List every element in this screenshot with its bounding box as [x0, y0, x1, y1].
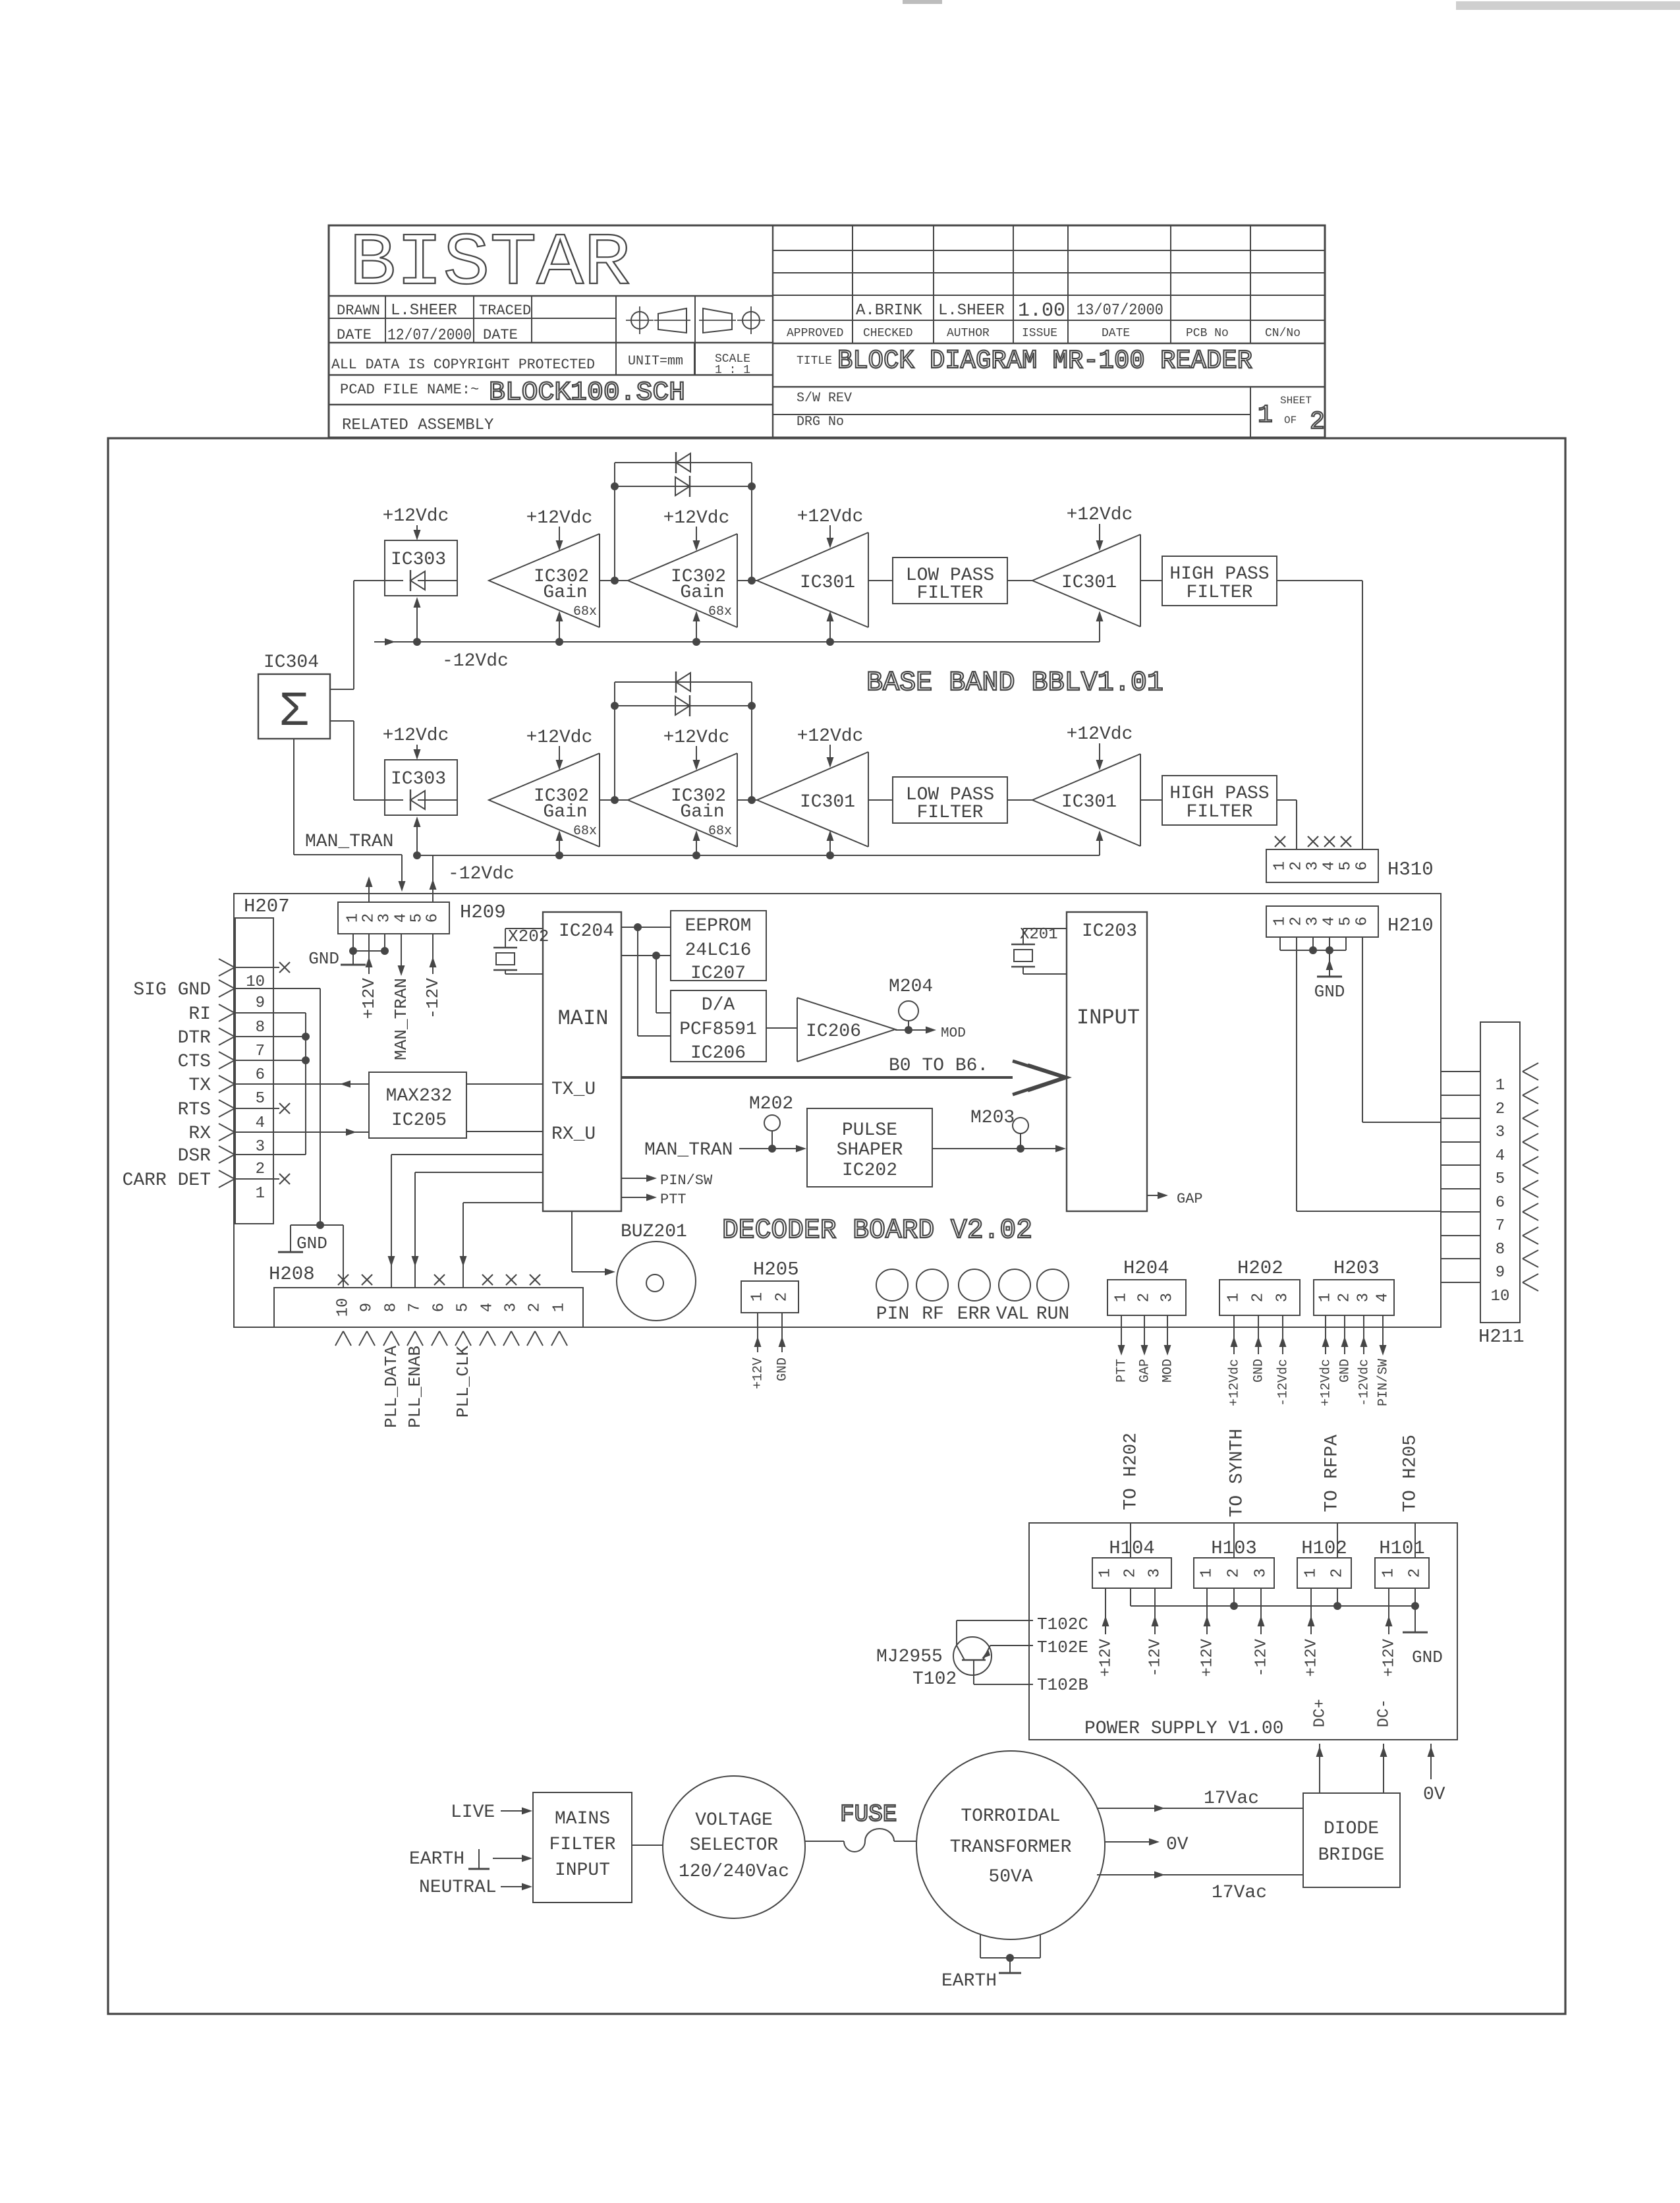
- buffer amp IC206: [766, 1027, 797, 1029]
- connector H207: [235, 918, 273, 1224]
- H207 TX wire to MAX232: [235, 1083, 369, 1085]
- svg-text:+12V: +12V: [359, 978, 379, 1019]
- svg-text:68x: 68x: [573, 604, 597, 619]
- amplifier IC301 first: [757, 752, 868, 847]
- svg-text:FILTER: FILTER: [917, 583, 984, 604]
- projection symbol cell divider: [694, 296, 696, 375]
- diode limiter box IC303: [385, 540, 457, 596]
- svg-text:IC301: IC301: [1061, 573, 1117, 593]
- svg-text:IC202: IC202: [842, 1160, 897, 1181]
- svg-text:6: 6: [1354, 917, 1372, 926]
- -12Vdc arrow at IC302 second: [696, 618, 697, 642]
- svg-text:GAP: GAP: [1177, 1191, 1203, 1207]
- svg-text:1: 1: [1198, 1568, 1216, 1578]
- svg-text:BASE BAND BBLV1.01: BASE BAND BBLV1.01: [866, 667, 1163, 699]
- svg-text:Gain: Gain: [543, 802, 587, 822]
- svg-text:TO RFPA: TO RFPA: [1322, 1435, 1342, 1512]
- svg-text:+12Vdc: +12Vdc: [383, 506, 449, 527]
- svg-text:DIODE: DIODE: [1324, 1819, 1379, 1839]
- H207 DTR wire: [235, 1036, 306, 1037]
- -12Vdc arrow at IC301 first: [829, 618, 831, 642]
- svg-text:MOD: MOD: [941, 1026, 966, 1041]
- svg-text:HIGH PASS: HIGH PASS: [1169, 564, 1269, 585]
- H207 pin 10 wire: [219, 959, 235, 967]
- RS232 driver MAX232 IC205: [369, 1072, 466, 1138]
- svg-text:0V: 0V: [1423, 1785, 1445, 1805]
- EEPROM 24LC16 IC207: [671, 911, 766, 981]
- svg-text:3: 3: [1304, 917, 1322, 926]
- svg-text:TITLE: TITLE: [797, 355, 832, 368]
- LED indicators PIN RF ERR VAL RUN: [876, 1269, 908, 1301]
- anti-parallel diode feedback loop: [614, 682, 615, 800]
- svg-text:DRAWN: DRAWN: [337, 302, 380, 319]
- svg-text:IC207: IC207: [690, 963, 746, 984]
- connector H208: [274, 1288, 583, 1327]
- svg-text:MJ2955: MJ2955: [876, 1647, 943, 1667]
- amplifier IC301 second: [1032, 754, 1140, 846]
- mains filter block: [533, 1792, 632, 1903]
- H208 pin mark: [527, 1331, 535, 1346]
- svg-text:SELECTOR: SELECTOR: [690, 1835, 779, 1856]
- H208 pin mark: [503, 1331, 511, 1346]
- wire HPF lower to H310 pin2: [1277, 799, 1297, 801]
- svg-text:T102B: T102B: [1037, 1675, 1088, 1695]
- svg-text:+12Vdc: +12Vdc: [383, 726, 449, 746]
- svg-text:MAN_TRAN: MAN_TRAN: [644, 1140, 733, 1160]
- PTT output: [621, 1197, 650, 1198]
- svg-text:2: 2: [1288, 917, 1306, 926]
- svg-text:PLL_ENAB: PLL_ENAB: [405, 1346, 425, 1428]
- svg-text:+12Vdc: +12Vdc: [663, 728, 730, 748]
- svg-text:IC301: IC301: [1061, 792, 1117, 813]
- svg-text:+12Vdc: +12Vdc: [526, 508, 593, 529]
- svg-text:DRG No: DRG No: [797, 415, 844, 430]
- svg-text:3: 3: [1159, 1293, 1177, 1302]
- svg-text:1: 1: [551, 1303, 569, 1312]
- svg-text:120/240Vac: 120/240Vac: [679, 1862, 789, 1882]
- power supply board outline: [1029, 1523, 1457, 1740]
- connector H209: [338, 902, 449, 934]
- H208 pin mark: [551, 1331, 559, 1346]
- svg-text:L.SHEER: L.SHEER: [391, 302, 457, 320]
- -12Vdc rail upper: [374, 641, 1100, 643]
- PIN/SW output: [621, 1178, 650, 1179]
- svg-text:6: 6: [431, 1303, 449, 1312]
- svg-text:GND: GND: [308, 949, 339, 969]
- svg-text:BRIDGE: BRIDGE: [1318, 1845, 1385, 1866]
- svg-text:H203: H203: [1333, 1257, 1380, 1279]
- svg-text:PULSE: PULSE: [842, 1120, 897, 1141]
- svg-text:NEUTRAL: NEUTRAL: [419, 1877, 497, 1898]
- svg-text:+12V: +12V: [1302, 1638, 1320, 1676]
- svg-text:68x: 68x: [708, 604, 732, 619]
- I2C bus wires to EEPROM and D/A: [621, 927, 671, 928]
- svg-text:5: 5: [455, 1303, 472, 1312]
- svg-text:DATE: DATE: [337, 327, 372, 343]
- svg-text:2: 2: [1407, 1568, 1424, 1578]
- svg-text:RX_U: RX_U: [551, 1124, 596, 1145]
- svg-text:H310: H310: [1387, 859, 1434, 880]
- svg-text:PLL_DATA: PLL_DATA: [381, 1346, 401, 1428]
- svg-text:EARTH: EARTH: [409, 1849, 464, 1870]
- svg-text:-12V: -12V: [1252, 1638, 1270, 1676]
- -12Vdc arrow at IC302 first: [559, 838, 560, 855]
- svg-text:PIN: PIN: [876, 1304, 909, 1325]
- svg-text:IC303: IC303: [391, 769, 446, 789]
- svg-text:5: 5: [1337, 861, 1355, 871]
- svg-text:6: 6: [424, 913, 442, 923]
- svg-text:ERR: ERR: [957, 1304, 991, 1325]
- H208 pin mark: [432, 1331, 439, 1346]
- first angle projection symbol right: [703, 308, 732, 333]
- H209 MAN_TRAN pin 4: [401, 934, 402, 969]
- svg-text:5: 5: [1337, 917, 1355, 926]
- amplifier IC302 second: [628, 534, 737, 627]
- H207 CTS wire: [235, 1060, 306, 1061]
- svg-text:9: 9: [256, 994, 265, 1012]
- svg-text:2: 2: [1310, 408, 1325, 436]
- svg-text:4: 4: [1321, 917, 1339, 926]
- svg-text:Gain: Gain: [543, 583, 587, 603]
- svg-text:3: 3: [376, 913, 394, 923]
- svg-text:9: 9: [1496, 1264, 1505, 1282]
- svg-text:IC304: IC304: [264, 652, 319, 673]
- svg-text:MAIN: MAIN: [558, 1006, 609, 1031]
- stubs from power connectors to board edge: [1130, 1523, 1131, 1558]
- svg-text:3: 3: [1252, 1568, 1270, 1578]
- H209 -12V pin 6 to rail: [432, 855, 434, 902]
- svg-text:2: 2: [1288, 861, 1306, 871]
- svg-text:GND: GND: [1412, 1647, 1443, 1667]
- svg-text:B0 TO B6.: B0 TO B6.: [889, 1056, 988, 1076]
- svg-text:BISTAR: BISTAR: [349, 222, 630, 306]
- svg-text:CN/No: CN/No: [1265, 327, 1301, 340]
- svg-text:10: 10: [335, 1298, 352, 1317]
- svg-text:5: 5: [1496, 1170, 1505, 1188]
- title block right grid: [773, 250, 1325, 251]
- H207 pin 2 wire: [219, 1146, 235, 1155]
- svg-text:3: 3: [1355, 1293, 1373, 1302]
- GAP output from INPUT: [1147, 1195, 1161, 1196]
- svg-text:24LC16: 24LC16: [685, 940, 752, 961]
- amplifier IC301 second: [1032, 534, 1140, 627]
- wire IC301 to low pass filter: [868, 799, 893, 801]
- svg-text:M204: M204: [889, 977, 933, 997]
- node at IC302-2 input: [611, 577, 619, 585]
- svg-text:68x: 68x: [573, 824, 597, 839]
- svg-text:1: 1: [1113, 1293, 1131, 1302]
- svg-text:PCB No: PCB No: [1186, 327, 1229, 340]
- svg-text:TRANSFORMER: TRANSFORMER: [950, 1837, 1072, 1858]
- svg-text:+12Vdc: +12Vdc: [1067, 505, 1133, 525]
- svg-text:IC205: IC205: [391, 1110, 447, 1131]
- svg-text:DC-: DC-: [1375, 1699, 1393, 1727]
- svg-text:+12Vdc: +12Vdc: [663, 508, 730, 529]
- H207 pin 9 wire: [219, 980, 235, 988]
- svg-text:FUSE: FUSE: [840, 1801, 897, 1828]
- MOD output arrow: [895, 1029, 929, 1031]
- wire IC301 to low pass filter: [868, 580, 893, 581]
- svg-text:H204: H204: [1123, 1257, 1169, 1279]
- svg-text:+12Vdc: +12Vdc: [797, 726, 864, 747]
- svg-text:PCAD FILE NAME:~: PCAD FILE NAME:~: [340, 382, 479, 398]
- H210 pin2 wire to H211 pin7: [1296, 937, 1297, 1211]
- svg-text:2: 2: [1122, 1568, 1140, 1578]
- svg-text:CARR DET: CARR DET: [123, 1170, 211, 1191]
- svg-text:APPROVED: APPROVED: [787, 327, 843, 340]
- svg-text:50VA: 50VA: [988, 1867, 1032, 1887]
- diode limiter box IC303: [385, 760, 457, 815]
- svg-text:UNIT=mm: UNIT=mm: [628, 354, 683, 369]
- svg-text:8: 8: [1496, 1241, 1505, 1259]
- H207 pin 5 wire: [219, 1075, 235, 1084]
- connector H102: [1297, 1558, 1351, 1588]
- svg-text:+12Vdc: +12Vdc: [1318, 1359, 1333, 1406]
- -12Vdc arrow into IC303 bottom: [416, 824, 418, 855]
- svg-text:2: 2: [1136, 1293, 1154, 1302]
- svg-text:0V: 0V: [1166, 1835, 1189, 1855]
- -12Vdc arrow at IC301 second: [1099, 618, 1100, 642]
- svg-text:HIGH PASS: HIGH PASS: [1169, 784, 1269, 804]
- svg-text:1: 1: [1272, 861, 1289, 871]
- svg-text:IC206: IC206: [806, 1021, 861, 1042]
- wire IC302-1 to node: [600, 580, 628, 581]
- svg-text:Gain: Gain: [680, 583, 724, 603]
- svg-text:SHAPER: SHAPER: [837, 1140, 903, 1160]
- svg-text:SHEET: SHEET: [1280, 395, 1312, 407]
- connector H202: [1219, 1280, 1300, 1315]
- wire low pass filter to IC301 second: [1007, 580, 1032, 581]
- 0V input stub: [1430, 1744, 1432, 1779]
- crystal X202: [493, 947, 517, 948]
- svg-text:RI: RI: [188, 1004, 211, 1025]
- connector H310: [1266, 849, 1378, 882]
- svg-text:1: 1: [256, 1185, 265, 1203]
- svg-text:2: 2: [1329, 1568, 1347, 1578]
- svg-text:4: 4: [1321, 861, 1339, 871]
- svg-text:3: 3: [1146, 1568, 1164, 1578]
- svg-text:3: 3: [1274, 1293, 1292, 1302]
- MAN_TRAN wire from IC304 down to H209: [293, 739, 294, 855]
- H207 pin10 wire nc: [235, 967, 279, 968]
- low pass filter block: [893, 558, 1007, 604]
- svg-text:+12V: +12V: [750, 1358, 766, 1389]
- H210 pin6 wire to H211 pin3: [1362, 937, 1363, 1122]
- svg-text:2: 2: [773, 1292, 791, 1302]
- low pass filter block: [893, 777, 1007, 823]
- svg-text:+12Vdc: +12Vdc: [526, 728, 593, 748]
- svg-text:DSR: DSR: [178, 1146, 211, 1166]
- TX_U wire: [466, 1083, 543, 1085]
- svg-text:RUN: RUN: [1036, 1304, 1069, 1325]
- svg-text:LIVE: LIVE: [451, 1802, 495, 1823]
- svg-text:T102E: T102E: [1037, 1638, 1088, 1657]
- H210 ground tie: [1279, 937, 1281, 950]
- svg-text:13/07/2000: 13/07/2000: [1077, 302, 1163, 320]
- svg-text:H104: H104: [1109, 1537, 1155, 1559]
- H207 RI wire: [235, 1012, 306, 1014]
- DC- input: [1383, 1744, 1384, 1793]
- H207 pin 7 wire: [219, 1028, 235, 1037]
- svg-text:AUTHOR: AUTHOR: [947, 327, 990, 340]
- svg-text:IC204: IC204: [559, 921, 614, 942]
- svg-text:-12Vdc: -12Vdc: [1357, 1359, 1372, 1406]
- title block grid: [772, 225, 773, 438]
- svg-text:H209: H209: [460, 901, 506, 923]
- connector H103: [1194, 1558, 1274, 1588]
- svg-text:2: 2: [1225, 1568, 1243, 1578]
- decoder board outline: [234, 894, 1441, 1327]
- svg-text:GAP: GAP: [1137, 1359, 1152, 1383]
- svg-text:S/W REV: S/W REV: [797, 391, 852, 406]
- svg-text:RF: RF: [922, 1304, 944, 1325]
- H211 pin 5 wire: [1441, 1164, 1480, 1166]
- wire IC301 second to high pass filter: [1140, 580, 1162, 581]
- H207 pin 3 wire: [219, 1124, 235, 1132]
- svg-text:17Vac: 17Vac: [1212, 1883, 1267, 1903]
- wire node to IC301: [737, 799, 757, 801]
- svg-text:1: 1: [1317, 1293, 1335, 1302]
- svg-text:MAN_TRAN: MAN_TRAN: [391, 978, 411, 1060]
- transformer output 17Vac top: [1097, 1808, 1303, 1809]
- svg-text:1: 1: [1225, 1293, 1243, 1302]
- pulse shaper IC202: [807, 1108, 932, 1187]
- PLL_ENAB wire IC204 to H208: [415, 1172, 543, 1173]
- H207 pin 4 wire: [219, 1100, 235, 1108]
- svg-text:1 : 1: 1 : 1: [715, 364, 750, 377]
- svg-text:1: 1: [1380, 1568, 1398, 1578]
- anti-parallel diode feedback loop: [614, 463, 615, 581]
- H208 pin mark: [455, 1331, 463, 1346]
- svg-text:7: 7: [1496, 1217, 1505, 1235]
- H207 CARR DET wire nc: [235, 1178, 279, 1180]
- svg-text:1: 1: [1302, 1568, 1320, 1578]
- diode bridge: [1303, 1793, 1400, 1887]
- connector H203: [1314, 1280, 1394, 1315]
- H208 pin mark: [407, 1331, 415, 1346]
- wire IC301 second to high pass filter: [1140, 799, 1162, 801]
- svg-text:7: 7: [406, 1303, 424, 1312]
- amplifier IC302 first: [489, 753, 600, 847]
- svg-text:CTS: CTS: [178, 1052, 211, 1072]
- svg-text:H211: H211: [1478, 1326, 1525, 1348]
- svg-text:FILTER: FILTER: [1187, 802, 1253, 822]
- svg-text:FILTER: FILTER: [1187, 583, 1253, 603]
- svg-text:A.BRINK: A.BRINK: [856, 302, 922, 320]
- wire filter to voltage selector: [632, 1845, 663, 1846]
- svg-text:8: 8: [383, 1303, 401, 1312]
- svg-text:2: 2: [360, 913, 378, 923]
- svg-text:PTT: PTT: [1114, 1359, 1129, 1383]
- svg-text:3: 3: [503, 1303, 520, 1312]
- svg-text:-12Vdc: -12Vdc: [448, 864, 515, 884]
- wire low pass filter to IC301 second: [1007, 799, 1032, 801]
- pulse shaper to INPUT wire: [932, 1148, 1059, 1149]
- svg-text:-12Vdc: -12Vdc: [1275, 1359, 1291, 1406]
- high pass filter block: [1162, 556, 1277, 606]
- svg-text:3: 3: [256, 1138, 265, 1156]
- svg-text:T102C: T102C: [1037, 1615, 1088, 1634]
- svg-text:+12V: +12V: [1097, 1638, 1115, 1676]
- svg-text:DATE: DATE: [483, 327, 518, 343]
- svg-text:VAL: VAL: [996, 1304, 1029, 1325]
- H209 ground pins 1 and 3: [352, 934, 354, 951]
- svg-text:IC301: IC301: [800, 573, 855, 593]
- svg-text:2: 2: [256, 1160, 265, 1178]
- H207 SIG GND wire: [235, 988, 320, 989]
- svg-text:6: 6: [1354, 861, 1372, 871]
- -12Vdc arrow at IC302 second: [696, 838, 697, 855]
- H207 pin 1 wire: [219, 1170, 235, 1179]
- wire IC304 to lower channel: [330, 720, 354, 722]
- svg-text:PIN/SW: PIN/SW: [1376, 1359, 1391, 1406]
- svg-text:H101: H101: [1379, 1537, 1425, 1559]
- svg-text:+12V: +12V: [1198, 1638, 1216, 1676]
- svg-text:1: 1: [345, 913, 362, 923]
- transformer output 0V: [1105, 1841, 1158, 1843]
- high pass filter block: [1162, 776, 1277, 825]
- edge connector H211: [1480, 1022, 1520, 1323]
- svg-text:IC206: IC206: [690, 1043, 746, 1064]
- svg-text:TX: TX: [188, 1075, 211, 1096]
- svg-text:D/A: D/A: [702, 995, 735, 1016]
- svg-text:PLL_CLK: PLL_CLK: [453, 1346, 473, 1418]
- svg-text:H102: H102: [1301, 1537, 1347, 1559]
- microcontroller IC204 MAIN: [543, 912, 621, 1211]
- title block outer border: [329, 225, 1325, 438]
- svg-text:DC+: DC+: [1311, 1699, 1329, 1727]
- svg-text:+12Vdc: +12Vdc: [1067, 724, 1133, 745]
- svg-text:ALL DATA IS COPYRIGHT PROTECTE: ALL DATA IS COPYRIGHT PROTECTED: [331, 357, 595, 373]
- amplifier IC302 second: [628, 753, 737, 847]
- PLL_DATA wire IC204 to H208: [391, 1154, 543, 1155]
- svg-text:4: 4: [256, 1114, 265, 1132]
- H208 pin mark: [335, 1331, 343, 1346]
- svg-text:RTS: RTS: [178, 1100, 211, 1120]
- -12Vdc arrow into IC303 bottom: [416, 605, 418, 642]
- svg-text:IC301: IC301: [800, 792, 855, 813]
- svg-text:RX: RX: [188, 1124, 211, 1144]
- svg-text:4: 4: [1496, 1147, 1505, 1165]
- svg-text:TO H202: TO H202: [1121, 1433, 1141, 1510]
- DC+ input: [1319, 1744, 1320, 1793]
- svg-text:6: 6: [1496, 1194, 1505, 1212]
- svg-text:VOLTAGE: VOLTAGE: [695, 1810, 773, 1831]
- svg-text:H202: H202: [1237, 1257, 1283, 1279]
- svg-text:3: 3: [1304, 861, 1322, 871]
- svg-text:FILTER: FILTER: [549, 1835, 616, 1855]
- svg-text:+12Vdc: +12Vdc: [797, 507, 864, 527]
- connector H210: [1266, 906, 1378, 937]
- wire HPF upper to H310 pin6: [1277, 580, 1362, 581]
- svg-text:INPUT: INPUT: [1077, 1006, 1140, 1030]
- H211 pin 6 wire: [1441, 1188, 1480, 1189]
- svg-text:CHECKED: CHECKED: [863, 327, 913, 340]
- svg-text:TRACED: TRACED: [479, 302, 531, 319]
- -12Vdc arrow at IC301 second: [1099, 838, 1100, 855]
- summer IC304: [258, 674, 330, 739]
- svg-text:PCF8591: PCF8591: [679, 1019, 757, 1040]
- connector H104: [1092, 1558, 1171, 1588]
- -12Vdc arrow at IC301 first: [829, 838, 831, 855]
- svg-text:MAINS: MAINS: [555, 1809, 610, 1829]
- svg-text:TO H205: TO H205: [1400, 1435, 1420, 1512]
- decoder IC203 INPUT block: [1067, 912, 1147, 1211]
- svg-text:INPUT: INPUT: [555, 1860, 610, 1881]
- svg-text:3: 3: [1496, 1124, 1505, 1141]
- svg-text:TO SYNTH: TO SYNTH: [1227, 1429, 1247, 1517]
- svg-text:FILTER: FILTER: [917, 803, 984, 823]
